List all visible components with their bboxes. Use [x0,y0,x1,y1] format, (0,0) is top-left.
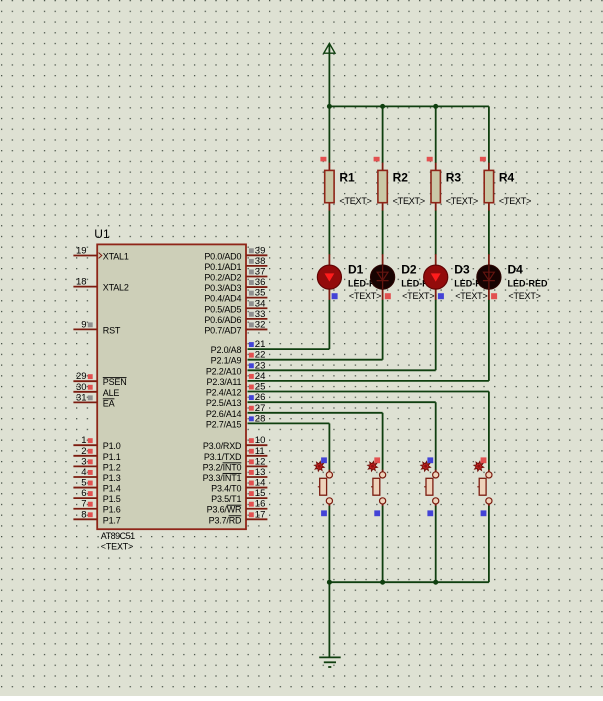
pin label EA [103,398,115,408]
pin 5 number [81,478,86,489]
svg-text:27: 27 [255,403,266,414]
pin 6 number [81,488,86,499]
svg-text:U1: U1 [94,227,110,241]
svg-text:P1.2: P1.2 [103,462,121,472]
wire button 3 to ground bus [435,506,437,582]
svg-text:P0.5/AD5: P0.5/AD5 [204,304,241,314]
value label D2 &lt;TEXT&gt; [402,291,434,301]
svg-text:39: 39 [255,245,266,256]
svg-text:19: 19 [76,246,87,257]
junction top bus col 2 [380,104,385,109]
svg-text:P2.5/A13: P2.5/A13 [206,398,242,408]
pin label P1.5 [103,494,121,504]
pin 1 number [81,435,86,446]
wire pin 26 (P2.5) to button 3 [248,402,436,470]
pin label RST [103,325,121,335]
pin label P0.0/AD0 [204,251,241,261]
pin 14 stub [246,487,267,489]
pin label P0.7/AD7 [204,325,241,335]
pin 7 state square [88,502,93,507]
pin 9 number [81,319,86,330]
wire R4 to D4 [488,211,490,255]
pin 26 state square [249,395,254,400]
svg-text:LED-RED: LED-RED [508,279,548,289]
wire bus to R2 [382,106,384,163]
svg-text:<TEXT>: <TEXT> [499,196,531,206]
pin 37 stub [246,275,267,277]
svg-text:P3.5/T1: P3.5/T1 [211,494,241,504]
pin 14 number [255,478,266,489]
svg-text:24: 24 [255,371,266,382]
svg-text:17: 17 [255,509,266,520]
pin 24 number [255,371,266,382]
svg-text:4: 4 [81,467,86,478]
svg-text:AT89C51: AT89C51 [101,531,135,541]
pin 11 state square [249,449,254,454]
push button 4 [477,470,492,507]
svg-text:5: 5 [81,478,86,489]
resistor R2 state square [374,157,380,162]
svg-text:2: 2 [81,446,86,457]
pin label P2.0/A8 [211,345,242,355]
pin 35 number [255,288,266,299]
svg-text:P1.0: P1.0 [103,441,121,451]
LED D4 (off) [477,254,501,300]
svg-text:23: 23 [255,360,266,371]
svg-text:P3.4/T0: P3.4/T0 [211,484,241,494]
svg-text:34: 34 [255,298,266,309]
svg-text:EA: EA [103,398,115,408]
svg-text:P0.2/AD2: P0.2/AD2 [204,272,241,282]
svg-text:16: 16 [255,499,266,510]
resistor R4 [484,163,493,211]
svg-text:P1.5: P1.5 [103,494,121,504]
pin label P3.3/INT1 [203,473,242,483]
pin 21 number [255,339,266,350]
LED D2 (off) [371,254,395,300]
wire button 2 to ground bus [382,506,384,582]
pin label P3.5/T1 [211,494,241,504]
power symbol VCC [324,43,335,106]
pin 6 state square [88,491,93,496]
pin 21 state square [249,342,254,347]
svg-text:P0.3/AD3: P0.3/AD3 [204,283,241,293]
pin 29 (PSEN) stub [73,380,96,382]
pin 1 state square [88,438,93,443]
wire D3 to pin 23 (P2.2) [248,300,436,371]
pin 29 state square [88,374,93,379]
pin label P0.1/AD1 [204,262,241,272]
pin 23 number [255,360,266,371]
pin 16 number [255,499,266,510]
svg-text:3: 3 [81,456,86,467]
pin 22 state square [249,353,254,358]
svg-text:P2.1/A9: P2.1/A9 [211,356,242,366]
svg-text:15: 15 [255,488,266,499]
svg-text:P3.7/RD: P3.7/RD [209,515,242,525]
pin 3 state square [88,459,93,464]
LED D1 (lit) [317,254,341,300]
svg-text:D1: D1 [348,263,364,277]
svg-text:P1.1: P1.1 [103,452,121,462]
resistor R3 state square [427,157,433,162]
svg-text:P2.2/A10: P2.2/A10 [206,366,242,376]
label D4 LED-RED [508,279,548,289]
svg-text:P2.7/A15: P2.7/A15 [206,419,242,429]
pin 33 stub [246,318,267,320]
svg-text:R4: R4 [499,171,515,185]
pin 27 state square [249,406,254,411]
pin 17 number [255,509,266,520]
pin label P1.2 [103,462,121,472]
pin 13 stub [246,476,267,478]
pin 11 stub [246,455,267,457]
pin 17 stub [246,518,267,520]
wire pin 25 (P2.4) to button 4 [248,392,489,471]
push button 2 [371,470,386,507]
pin 7 number [81,499,86,510]
pin 6 (P1.5) stub [73,497,96,499]
label R2 [393,171,409,185]
button 4 actuator star icon [474,461,484,471]
pin 8 (P1.7) stub [73,518,96,520]
pin 37 number [255,266,266,277]
value label U1 &lt;TEXT&gt; [101,542,133,552]
pin 15 number [255,488,266,499]
button 2 top state square [374,457,380,463]
push button 1 [318,470,333,507]
resistor R4 state square [480,157,486,162]
wire bus to R4 [488,106,490,163]
pin label P3.0/RXD [203,441,242,451]
pin 15 stub [246,497,267,499]
svg-text:21: 21 [255,339,266,350]
pin 36 stub [246,286,267,288]
pin label P2.5/A13 [206,398,242,408]
svg-text:P3.2/INT0: P3.2/INT0 [203,462,242,472]
svg-text:12: 12 [255,456,266,467]
button 4 bottom state square [481,510,487,516]
pin 36 state square [249,280,254,285]
pin label P3.7/RD [209,515,242,525]
pin label P3.2/INT0 [203,462,242,472]
pin label ALE [103,388,120,398]
resistor R2 [378,163,387,211]
pin label P3.4/T0 [211,484,241,494]
pin 12 stub [246,465,267,467]
svg-text:<TEXT>: <TEXT> [339,196,371,206]
pin 7 (P1.6) stub [73,508,96,510]
pin 25 number [255,382,266,393]
pin 11 number [255,446,265,457]
pin 29 number [76,371,87,382]
svg-text:P0.4/AD4: P0.4/AD4 [204,294,241,304]
svg-text:37: 37 [255,266,266,277]
pin 10 state square [249,438,254,443]
svg-text:P0.6/AD6: P0.6/AD6 [204,315,241,325]
svg-text:P2.6/A14: P2.6/A14 [206,409,242,419]
pin 10 stub [246,444,267,446]
pin label P2.7/A15 [206,419,242,429]
wire button 1 to ground bus [328,506,330,582]
pin 4 (P1.3) stub [73,476,96,478]
svg-text:13: 13 [255,467,266,478]
svg-text:36: 36 [255,277,266,288]
value label D4 &lt;TEXT&gt; [508,291,540,301]
svg-text:P1.3: P1.3 [103,473,121,483]
pin label P2.3/A11 [207,377,242,387]
svg-text:P0.1/AD1: P0.1/AD1 [204,262,241,272]
svg-text:<TEXT>: <TEXT> [101,542,133,552]
wire R2 to D2 [382,211,384,255]
pin label P1.4 [103,484,121,494]
pin label P1.0 [103,441,121,451]
svg-text:31: 31 [76,392,87,403]
pin 33 state square [249,312,254,317]
label R4 [499,171,515,185]
svg-text:D4: D4 [508,263,524,277]
svg-text:P3.0/RXD: P3.0/RXD [203,441,242,451]
pin 36 number [255,277,266,288]
pin 34 number [255,298,266,309]
junction top bus col 1 [327,104,332,109]
svg-text:28: 28 [255,413,266,424]
svg-text:<TEXT>: <TEXT> [349,291,381,301]
pin 30 state square [88,385,93,390]
value label R1 &lt;TEXT&gt; [339,196,371,206]
pin 5 (P1.4) stub [73,487,96,489]
svg-text:P3.1/TXD: P3.1/TXD [204,452,242,462]
pin 25 state square [249,385,254,390]
pin 2 number [81,446,86,457]
pin 8 state square [88,512,93,517]
pin 35 state square [249,291,254,296]
pin 28 state square [249,416,254,421]
pin 23 state square [249,363,254,368]
svg-text:11: 11 [255,446,265,457]
pin label P2.4/A12 [206,388,242,398]
pin 2 state square [88,449,93,454]
pin 34 stub [246,307,267,309]
pin 31 (EA) stub [73,401,96,403]
svg-text:P2.3/A11: P2.3/A11 [207,377,242,387]
label AT89C51 [101,531,135,541]
pin 31 number [76,392,87,403]
LED D3 (lit) [424,254,448,300]
XTAL1 clock arrow [99,253,102,259]
wire bus to ground [328,582,330,657]
pin 19 (XTAL1) stub [73,255,96,257]
label D2 LED-RED [401,279,441,289]
svg-text:6: 6 [81,488,86,499]
pin 12 state square [249,459,254,464]
wire R3 to D3 [435,211,437,255]
label U1 [94,227,110,241]
svg-text:<TEXT>: <TEXT> [455,291,487,301]
button 2 bottom state square [374,510,380,516]
svg-text:<TEXT>: <TEXT> [402,291,434,301]
label D4 [508,263,524,277]
resistor R1 state square [320,157,326,162]
pin 15 state square [249,491,254,496]
pin label P0.4/AD4 [204,294,241,304]
pin 31 state square [88,395,93,400]
button 1 top state square [321,457,327,463]
svg-text:P2.0/A8: P2.0/A8 [211,345,242,355]
value label R2 &lt;TEXT&gt; [393,196,425,206]
pin label P1.7 [103,515,121,525]
button 2 actuator star icon [368,461,378,471]
svg-text:R2: R2 [393,171,409,185]
wire top power bus [329,105,489,107]
LED D3 state square [438,293,444,299]
value label R3 &lt;TEXT&gt; [446,196,478,206]
svg-text:30: 30 [76,382,87,393]
pin 35 stub [246,297,267,299]
label R3 [446,171,462,185]
svg-text:25: 25 [255,382,266,393]
label D2 [401,263,417,277]
svg-text:ALE: ALE [103,388,120,398]
svg-text:14: 14 [255,478,266,489]
pin 18 number [76,277,87,288]
wire pin 28 (P2.7) to button 1 [248,423,330,470]
button 3 bottom state square [427,510,433,516]
pin label P2.6/A14 [206,409,242,419]
pin 39 state square [249,248,254,253]
pin 28 number [255,413,266,424]
label D3 [454,263,470,277]
pin 13 number [255,467,266,478]
label D3 LED-RED [454,279,494,289]
button 3 top state square [427,457,433,463]
pin 18 (XTAL2) stub [73,286,96,288]
pin 8 number [81,509,86,520]
svg-text:33: 33 [255,309,266,320]
junction top bus col 3 [433,104,438,109]
svg-text:P2.4/A12: P2.4/A12 [206,388,242,398]
resistor R3 [431,163,440,211]
svg-text:P1.6: P1.6 [103,505,121,515]
svg-text:22: 22 [255,350,266,361]
pin 2 (P1.1) stub [73,455,96,457]
pin label P1.6 [103,505,121,515]
junction bottom bus col 3 [433,580,438,585]
pin 33 number [255,309,266,320]
pin label P0.3/AD3 [204,283,241,293]
svg-text:18: 18 [76,277,87,288]
svg-text:P0.7/AD7: P0.7/AD7 [204,325,241,335]
pin 10 number [255,435,266,446]
pin 39 stub [246,254,267,256]
pin 5 state square [88,481,93,486]
pin label XTAL2 [103,283,129,293]
LED D1 state square [332,293,338,299]
pin 30 (ALE) stub [73,391,96,393]
button 1 actuator star icon [314,461,324,471]
pin label P2.2/A10 [206,366,242,376]
pin 3 (P1.2) stub [73,465,96,467]
pin 32 number [255,319,266,330]
pin 16 stub [246,508,267,510]
pin 24 state square [249,374,254,379]
wire bottom ground bus [329,581,489,583]
svg-text:10: 10 [255,435,266,446]
pin 37 state square [249,269,254,274]
svg-text:R3: R3 [446,171,462,185]
wire pin 27 (P2.6) to button 2 [248,413,383,470]
pin 32 stub [246,328,267,330]
pin label P0.2/AD2 [204,272,241,282]
svg-text:29: 29 [76,371,87,382]
svg-text:PSEN: PSEN [103,377,127,387]
label D1 LED-RED [348,279,388,289]
pin label P1.3 [103,473,121,483]
pin 38 state square [249,259,254,264]
ground symbol [319,657,341,667]
svg-text:7: 7 [81,499,86,510]
pin 38 number [255,256,266,267]
pin 38 stub [246,265,267,267]
svg-text:XTAL1: XTAL1 [103,252,129,262]
pin label PSEN [103,377,127,387]
pin label P0.5/AD5 [204,304,241,314]
pin 19 number [76,246,87,257]
wire D4 to pin 24 (P2.3) [248,300,489,381]
svg-text:38: 38 [255,256,266,267]
wire bus to R3 [435,106,437,163]
svg-text:XTAL2: XTAL2 [103,283,129,293]
svg-text:<TEXT>: <TEXT> [508,291,540,301]
pin 3 number [81,456,86,467]
value label D3 &lt;TEXT&gt; [455,291,487,301]
pin 9 (RST) stub [73,328,96,330]
pin label P3.6/WR [207,505,242,515]
pin label P0.6/AD6 [204,315,241,325]
value label D1 &lt;TEXT&gt; [349,291,381,301]
junction bottom bus col 1 [327,580,332,585]
IC U1 AT89C51 body [97,244,246,529]
pin 27 number [255,403,266,414]
value label R4 &lt;TEXT&gt; [499,196,531,206]
pin 13 state square [249,470,254,475]
resistor R1 [325,163,334,211]
pin 12 number [255,456,266,467]
svg-text:35: 35 [255,288,266,299]
svg-text:<TEXT>: <TEXT> [446,196,478,206]
button 1 bottom state square [321,510,327,516]
LED D2 state square [385,293,391,299]
pin 26 number [255,392,266,403]
svg-text:R1: R1 [339,171,355,185]
wire R1 to D1 [328,211,330,255]
pin label P2.1/A9 [211,356,242,366]
pin 1 (P1.0) stub [73,444,96,446]
pin 4 number [81,467,86,478]
pin 34 state square [249,301,254,306]
svg-text:P1.4: P1.4 [103,484,121,494]
wire button 4 to ground bus [488,506,490,582]
label R1 [339,171,355,185]
svg-text:P0.0/AD0: P0.0/AD0 [204,251,241,261]
svg-text:RST: RST [103,325,121,335]
svg-text:1: 1 [81,435,86,446]
svg-text:D2: D2 [401,263,417,277]
svg-text:D3: D3 [454,263,470,277]
svg-text:8: 8 [81,509,86,520]
pin 9 state square [88,322,93,327]
svg-text:P3.3/INT1: P3.3/INT1 [203,473,242,483]
